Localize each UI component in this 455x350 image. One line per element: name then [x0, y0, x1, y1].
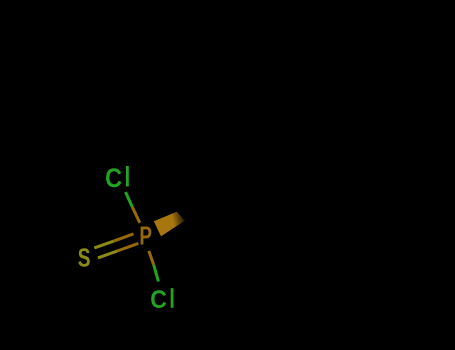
bond P-Cl2 lower half (chlorine green) — [154, 265, 159, 282]
bond P-Cl1 upper half (chlorine green) — [126, 192, 133, 207]
svg-text:C: C — [150, 286, 167, 314]
atom label Cl2 (bottom chlorine): letter l as bar — [171, 288, 174, 308]
svg-text:S: S — [78, 243, 91, 273]
bond P-Cl1 lower half (phosphorus gold) — [132, 207, 140, 223]
double bond S=P line 1 sulfur half (olive) — [94, 241, 113, 248]
svg-text:P: P — [139, 222, 152, 251]
double bond S=P line 2 sulfur half (olive) — [98, 251, 118, 258]
stereo wedge bond P-C (bold wedge with fading tip) — [154, 212, 185, 237]
double bond S=P line 1 phosphorus half (gold) — [114, 234, 134, 241]
atom label Cl1 (top chlorine): letter l as bar — [126, 166, 129, 187]
bond P-Cl2 upper half (phosphorus gold) — [149, 251, 154, 265]
double bond S=P line 2 phosphorus half (gold) — [118, 243, 139, 251]
svg-text:C: C — [105, 163, 122, 193]
